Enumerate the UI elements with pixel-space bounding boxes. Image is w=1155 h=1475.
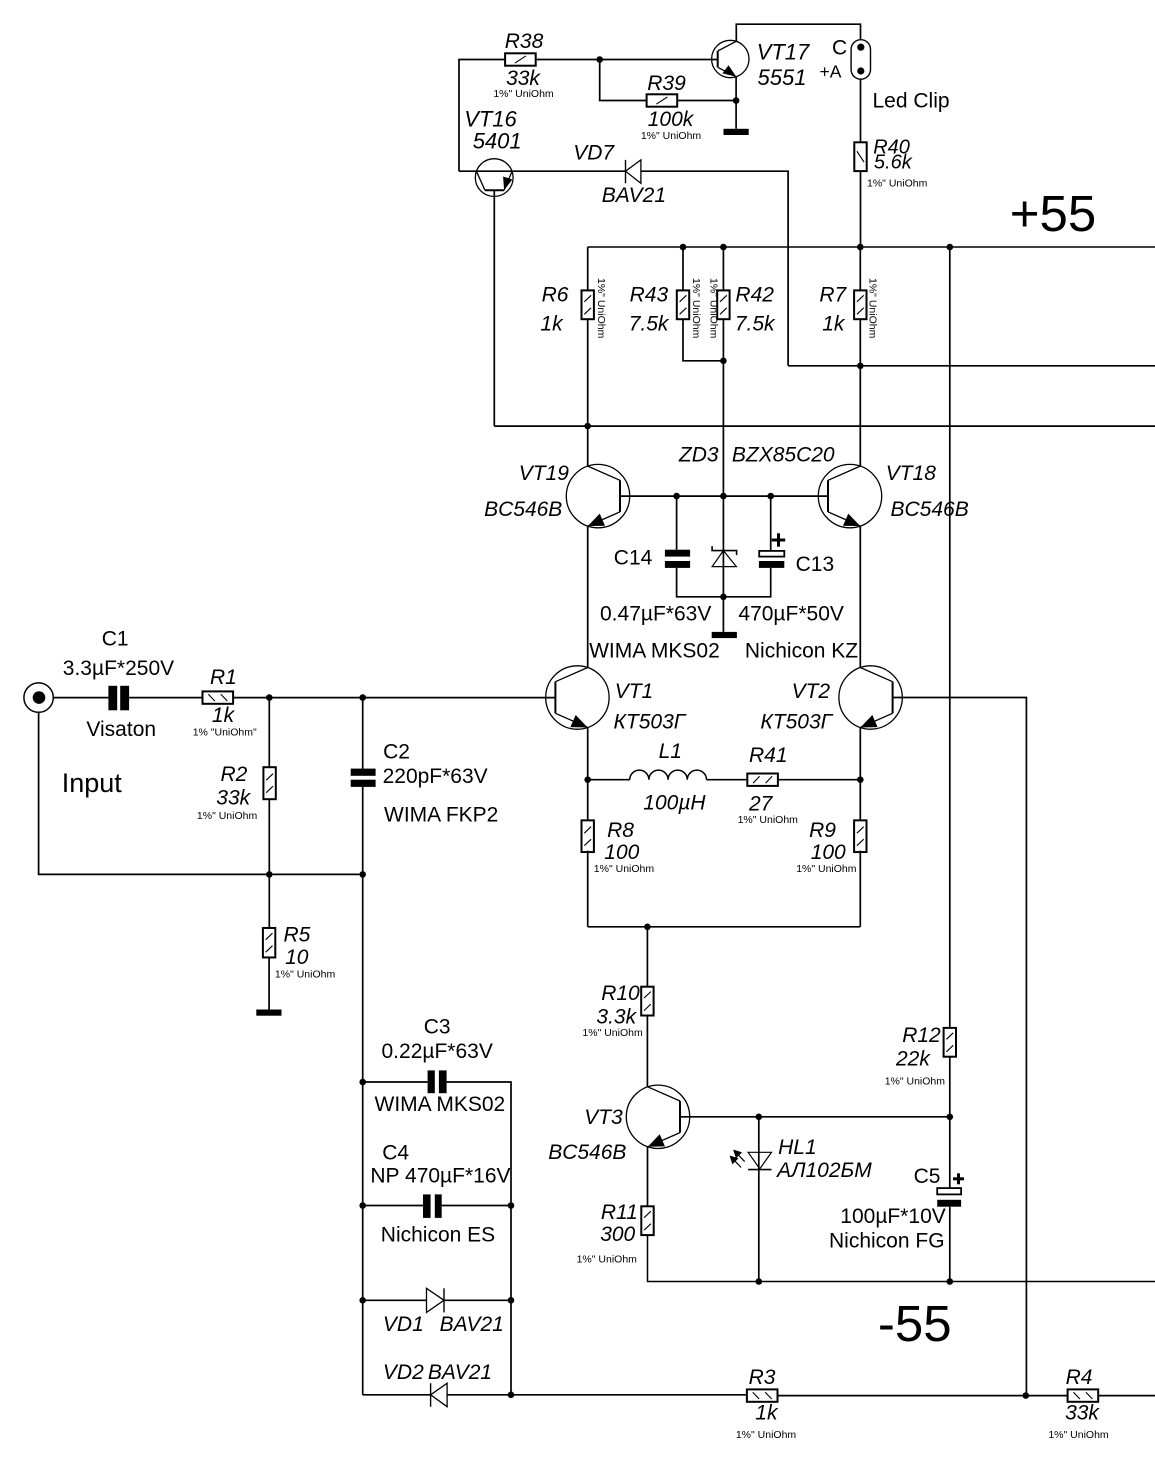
wire — [859, 319, 861, 466]
svg-text:C3: C3 — [424, 1016, 451, 1039]
svg-text:33k: 33k — [216, 787, 251, 810]
wire — [949, 1057, 951, 1188]
junction — [584, 776, 591, 783]
wire — [268, 698, 270, 768]
wire — [442, 1205, 511, 1207]
junction — [673, 493, 680, 500]
svg-text:WIMA MKS02: WIMA MKS02 — [375, 1093, 506, 1116]
wire — [600, 60, 647, 101]
transistor VT18 — [818, 464, 881, 527]
svg-text:C2: C2 — [383, 741, 410, 764]
junction — [947, 1278, 954, 1285]
wire — [758, 1117, 760, 1282]
resistor R39 — [647, 94, 678, 106]
junction — [644, 924, 651, 931]
svg-text:1%" UniOhm: 1%" UniOhm — [738, 814, 799, 826]
svg-text:33k: 33k — [506, 67, 541, 90]
wire — [588, 779, 630, 781]
wire — [587, 247, 589, 290]
svg-text:C: C — [832, 37, 847, 60]
wire — [268, 799, 270, 874]
svg-text:WIMA MKS02: WIMA MKS02 — [589, 640, 720, 663]
junction — [857, 363, 864, 370]
junction — [857, 244, 864, 251]
transistor VT16 — [475, 159, 513, 197]
wire — [620, 495, 828, 497]
wire — [647, 1147, 649, 1206]
wire — [778, 1395, 1069, 1397]
resistor R40 — [854, 142, 866, 171]
resistor R3 — [747, 1389, 778, 1401]
resistor R38 — [505, 53, 536, 65]
junction — [720, 358, 727, 365]
wire — [680, 1116, 950, 1118]
svg-text:Nichicon KZ: Nichicon KZ — [745, 640, 858, 663]
svg-text:1%" UniOhm: 1%" UniOhm — [594, 863, 655, 875]
svg-text:VD2: VD2 — [383, 1361, 424, 1384]
svg-text:470µF*50V: 470µF*50V — [738, 603, 844, 626]
svg-text:33k: 33k — [1065, 1402, 1100, 1425]
wire — [770, 496, 772, 551]
wire — [893, 698, 1027, 1396]
wire — [363, 1394, 431, 1396]
svg-text:1%" UniOhm: 1%" UniOhm — [690, 278, 702, 339]
wire — [587, 851, 589, 927]
svg-text:300: 300 — [600, 1223, 635, 1246]
svg-text:C1: C1 — [102, 628, 129, 651]
wire — [860, 79, 862, 142]
wire — [587, 526, 589, 667]
diode VD7 — [626, 160, 641, 183]
wire — [736, 24, 860, 41]
svg-text:R3: R3 — [749, 1366, 776, 1389]
svg-text:3.3µF*250V: 3.3µF*250V — [63, 657, 174, 680]
svg-text:1%" UniOhm: 1%" UniOhm — [582, 1027, 643, 1039]
led HL1 emission arrows — [731, 1151, 745, 1168]
wire — [641, 171, 788, 366]
wire — [646, 1016, 648, 1087]
junction — [733, 97, 740, 104]
svg-text:R1: R1 — [210, 666, 237, 689]
svg-text:1%" UniOhm: 1%" UniOhm — [1048, 1429, 1109, 1441]
ground R5 — [256, 1010, 281, 1016]
wire — [860, 171, 862, 247]
resistor R9 — [854, 820, 866, 852]
junction — [596, 56, 603, 63]
svg-text:1%" UniOhm: 1%" UniOhm — [885, 1075, 946, 1087]
svg-text:5401: 5401 — [473, 129, 522, 154]
junction — [359, 1202, 366, 1209]
svg-text:7.5k: 7.5k — [629, 313, 670, 336]
svg-text:100µF*10V: 100µF*10V — [840, 1205, 946, 1228]
wire — [233, 697, 556, 699]
svg-text:0.47µF*63V: 0.47µF*63V — [600, 603, 711, 626]
wire — [447, 1394, 746, 1396]
svg-text:1%" UniOhm: 1%" UniOhm — [796, 863, 857, 875]
wire — [722, 496, 724, 632]
svg-text:1%" UniOhm: 1%" UniOhm — [275, 969, 336, 981]
wire — [459, 170, 626, 172]
capacitor C1 — [108, 686, 117, 711]
junction — [359, 1297, 366, 1304]
resistor R41 — [747, 774, 778, 786]
svg-text:7.5k: 7.5k — [735, 313, 776, 336]
junction — [720, 594, 727, 601]
wire — [949, 1207, 951, 1282]
junction — [266, 694, 273, 701]
wire — [722, 247, 724, 290]
svg-text:-55: -55 — [878, 1295, 952, 1352]
svg-text:NP 470µF*16V: NP 470µF*16V — [370, 1165, 510, 1188]
svg-text:R12: R12 — [902, 1024, 941, 1047]
wire — [646, 927, 648, 987]
wire — [859, 247, 861, 290]
wire — [53, 697, 108, 699]
svg-text:R5: R5 — [284, 924, 311, 947]
svg-text:R10: R10 — [601, 982, 640, 1005]
svg-text:1%" UniOhm: 1%" UniOhm — [867, 278, 879, 339]
svg-text:R38: R38 — [505, 30, 544, 53]
svg-text:100: 100 — [604, 841, 639, 864]
junction — [720, 244, 727, 251]
wire — [707, 779, 747, 781]
svg-text:1%" UniOhm: 1%" UniOhm — [197, 810, 258, 822]
svg-text:BAV21: BAV21 — [428, 1361, 492, 1384]
resistor R12 — [944, 1028, 956, 1057]
junction — [266, 871, 273, 878]
svg-text:1k: 1k — [212, 704, 236, 727]
wire — [587, 426, 589, 466]
wire — [362, 874, 364, 1394]
wire — [859, 851, 861, 927]
svg-text:1k: 1k — [540, 313, 564, 336]
svg-text:АЛ102БМ: АЛ102БМ — [775, 1159, 872, 1182]
svg-text:R42: R42 — [735, 284, 774, 307]
svg-text:C13: C13 — [796, 553, 835, 576]
junction — [359, 871, 366, 878]
junction — [359, 1079, 366, 1086]
wire — [362, 698, 364, 769]
svg-text:+A: +A — [820, 62, 842, 82]
svg-text:BAV21: BAV21 — [440, 1313, 504, 1336]
wire — [1098, 1395, 1155, 1397]
junction — [947, 1114, 954, 1121]
junction — [947, 244, 954, 251]
svg-text:220pF*63V: 220pF*63V — [383, 765, 488, 788]
wire — [268, 958, 270, 1010]
junction — [720, 493, 727, 500]
svg-text:1%" UniOhm: 1%" UniOhm — [493, 88, 554, 100]
svg-text:1k: 1k — [755, 1402, 779, 1425]
resistor R8 — [582, 820, 594, 852]
svg-text:C4: C4 — [382, 1142, 409, 1165]
wire — [735, 77, 737, 129]
svg-text:3.3k: 3.3k — [596, 1006, 637, 1029]
svg-text:BZX85C20: BZX85C20 — [732, 444, 835, 467]
svg-text:ZD3: ZD3 — [678, 444, 719, 467]
wire — [683, 319, 723, 361]
svg-text:BC546B: BC546B — [484, 498, 562, 521]
svg-text:1% "UniOhm": 1% "UniOhm" — [193, 727, 257, 739]
wire — [129, 697, 202, 699]
junction — [857, 776, 864, 783]
junction — [508, 1202, 515, 1209]
svg-text:1%" UniOhm: 1%" UniOhm — [707, 278, 719, 339]
wire — [722, 319, 724, 496]
wire — [444, 1299, 511, 1301]
connector C +A — [851, 40, 870, 79]
svg-text:22k: 22k — [895, 1048, 931, 1071]
wire — [363, 1205, 423, 1207]
wire — [268, 874, 270, 928]
junction — [767, 493, 774, 500]
svg-text:BC546B: BC546B — [891, 498, 969, 521]
svg-text:R7: R7 — [819, 284, 847, 307]
svg-text:5.6k: 5.6k — [874, 152, 913, 174]
input connector — [24, 683, 53, 712]
svg-text:BAV21: BAV21 — [602, 184, 666, 207]
junction — [508, 1297, 515, 1304]
plus sign C13 — [772, 533, 785, 546]
junction — [756, 1114, 763, 1121]
ground VT17 emitter — [724, 129, 749, 135]
junction — [1023, 1392, 1030, 1399]
wire — [779, 779, 860, 781]
wire — [362, 787, 364, 875]
transistor VT3 — [626, 1085, 689, 1148]
svg-text:КТ503Г: КТ503Г — [760, 711, 833, 734]
svg-text:C5: C5 — [914, 1165, 941, 1188]
junction — [584, 423, 591, 430]
wire — [677, 568, 771, 597]
junction — [756, 1278, 763, 1285]
svg-text:100µH: 100µH — [643, 792, 706, 815]
junction — [359, 694, 366, 701]
svg-text:Nichicon FG: Nichicon FG — [829, 1229, 945, 1252]
junction — [508, 1392, 515, 1399]
svg-text:КТ503Г: КТ503Г — [614, 711, 687, 734]
svg-text:+55: +55 — [1010, 185, 1097, 242]
svg-text:VD1: VD1 — [383, 1313, 424, 1336]
wire — [682, 247, 684, 290]
wire — [676, 496, 678, 550]
svg-text:R4: R4 — [1066, 1366, 1093, 1389]
svg-text:VT18: VT18 — [886, 462, 937, 485]
plus sign C5 — [953, 1173, 964, 1184]
svg-text:1k: 1k — [822, 313, 846, 336]
svg-text:BC546B: BC546B — [548, 1141, 626, 1164]
svg-text:27: 27 — [748, 793, 774, 816]
svg-text:100: 100 — [811, 841, 846, 864]
wire — [536, 59, 718, 61]
svg-text:R8: R8 — [607, 819, 634, 842]
wire — [447, 1082, 511, 1395]
svg-text:R9: R9 — [809, 819, 836, 842]
svg-text:1%" UniOhm: 1%" UniOhm — [641, 130, 702, 142]
wire +55 rail — [588, 246, 1155, 248]
transistor VT17 — [712, 40, 749, 77]
svg-text:Led Clip: Led Clip — [873, 90, 950, 113]
wire — [677, 100, 736, 102]
svg-text:HL1: HL1 — [778, 1136, 817, 1159]
wire — [39, 712, 363, 874]
wire — [588, 926, 861, 928]
svg-text:5551: 5551 — [758, 65, 807, 90]
wire — [493, 190, 495, 426]
svg-text:VD7: VD7 — [573, 142, 615, 165]
svg-text:L1: L1 — [659, 740, 682, 763]
svg-text:0.22µF*63V: 0.22µF*63V — [382, 1040, 493, 1063]
svg-text:VT2: VT2 — [792, 680, 831, 703]
svg-text:1%" UniOhm: 1%" UniOhm — [577, 1254, 638, 1266]
svg-text:C14: C14 — [614, 547, 653, 570]
transistor VT19 — [566, 464, 629, 527]
wire — [859, 526, 861, 667]
wire — [363, 1081, 428, 1083]
resistor R1 — [203, 691, 234, 703]
svg-text:100k: 100k — [648, 108, 695, 131]
svg-text:VT19: VT19 — [519, 462, 570, 485]
wire VT3 emitter and -55 rail — [648, 1235, 1155, 1281]
svg-text:VT17: VT17 — [757, 40, 810, 65]
svg-text:R11: R11 — [601, 1201, 638, 1224]
svg-text:R6: R6 — [542, 284, 569, 307]
svg-text:1%" UniOhm: 1%" UniOhm — [736, 1429, 797, 1441]
wire — [949, 247, 951, 1028]
transistor VT2 — [839, 666, 902, 729]
svg-text:10: 10 — [285, 946, 309, 969]
wire — [459, 60, 505, 172]
svg-text:R39: R39 — [647, 72, 686, 95]
svg-text:WIMA FKP2: WIMA FKP2 — [384, 803, 498, 826]
svg-text:Nichicon ES: Nichicon ES — [381, 1223, 495, 1246]
wire — [788, 365, 1155, 367]
svg-text:Visaton: Visaton — [86, 718, 156, 741]
svg-text:VT3: VT3 — [584, 1106, 623, 1129]
wire — [494, 425, 1155, 427]
transistor VT1 — [546, 666, 609, 729]
svg-text:R41: R41 — [749, 744, 788, 767]
svg-text:VT1: VT1 — [615, 680, 654, 703]
junction — [680, 244, 687, 251]
wire — [587, 728, 589, 821]
resistor R4 — [1068, 1389, 1099, 1401]
wire — [587, 319, 589, 426]
wire — [363, 1299, 427, 1301]
svg-text:R43: R43 — [630, 284, 669, 307]
svg-text:R2: R2 — [221, 763, 248, 786]
capacitor C5 — [937, 1188, 961, 1194]
svg-text:Input: Input — [62, 768, 123, 798]
wire — [859, 728, 861, 821]
svg-text:1%" UniOhm: 1%" UniOhm — [867, 178, 928, 190]
ground ZD3 — [712, 632, 737, 638]
svg-text:1%" UniOhm: 1%" UniOhm — [595, 278, 607, 339]
